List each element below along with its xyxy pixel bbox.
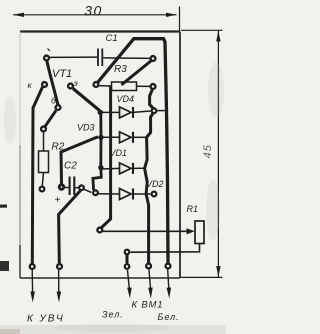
wire base pad to R2 top pad — [45, 111, 56, 127]
dimension line 30 (board width) — [13, 7, 180, 32]
lead-out arrow 5 — [167, 269, 172, 298]
node junction VD3 anode — [98, 135, 103, 140]
svg-text:30: 30 — [84, 3, 103, 19]
wire R1 bottom lead return — [131, 244, 200, 253]
wire R3 left lead — [99, 85, 112, 87]
lead-out arrow 1 — [30, 270, 35, 303]
capacitor C2 right plate — [73, 177, 75, 196]
diode VD4 — [101, 107, 166, 118]
node pad emitter row right — [92, 81, 99, 88]
node output pad 1 (K UVCh) — [29, 263, 36, 270]
wire trace R3 left down to R1 wiper pad — [101, 87, 111, 229]
svg-text:+: + — [55, 195, 61, 206]
wire R2 top lead — [43, 132, 45, 151]
transistor VT1 base pad — [54, 104, 61, 111]
node pad VD2 cathode — [151, 191, 158, 198]
wire diode cathode bus down to output pad 4 — [145, 114, 153, 263]
node output pad 5 (Bel) — [164, 262, 171, 269]
resistor R2 — [39, 151, 49, 173]
diode VD3 — [102, 132, 147, 143]
node output pad 4 (K BM1) — [145, 262, 152, 269]
transistor VT1 collector pad — [41, 81, 48, 88]
svg-text:VD4: VD4 — [117, 94, 135, 104]
wire C2 plus pad up and over to diode bus — [61, 137, 98, 184]
trimmer R1 wiper arrow — [187, 228, 195, 234]
scan artifacts — [0, 62, 226, 334]
node junction VD4 anode — [98, 110, 103, 115]
capacitor C1 right plate — [101, 49, 103, 67]
wire C1 right plate to pad — [103, 57, 150, 60]
wire emitter pad to diode bus junction — [73, 89, 100, 111]
wire C2 minus lead — [75, 187, 78, 189]
wire R2 bottom lead — [42, 173, 43, 186]
svg-text:VT1: VT1 — [52, 68, 72, 80]
wire pad R3-right down to VD4 cathode pad — [150, 90, 154, 109]
node pad R3 right — [149, 83, 156, 90]
svg-text:VD1: VD1 — [110, 148, 128, 158]
svg-text:С2: С2 — [64, 161, 77, 172]
node pad VD2 anode — [92, 189, 99, 196]
transistor VT1 top pad tick — [48, 49, 51, 52]
transistor VT1 top pad — [43, 54, 50, 61]
svg-text:С1: С1 — [106, 33, 118, 44]
node output pad 3 (Zel) — [124, 263, 131, 270]
wire diode anode bus vertical — [93, 112, 101, 190]
svg-text:э: э — [74, 78, 78, 88]
node pad C1 out — [149, 55, 156, 62]
node output pad 2 (K UVCh) — [56, 263, 63, 270]
node pad R1 wiper — [96, 226, 103, 233]
capacitor C1 left plate — [97, 49, 99, 67]
wire supply trace from emitter-row pad over top to right rail — [98, 39, 168, 263]
svg-text:R1: R1 — [187, 204, 199, 214]
wire link dual pad — [126, 252, 129, 267]
capacitor C2 minus pad — [78, 184, 85, 191]
wire VT1 top pad to C1 left plate — [50, 56, 98, 58]
wire C2 minus pad down to output pad 2 — [59, 191, 81, 264]
svg-text:Бел.: Бел. — [158, 312, 180, 322]
wire C2 plus lead — [65, 187, 69, 189]
diode VD1 — [101, 163, 145, 174]
lead-out arrow 4 — [148, 269, 153, 298]
wire R3 right lead — [137, 85, 151, 87]
wire C2 minus pad to VD2 anode pad — [84, 189, 91, 192]
svg-text:К ВМ1: К ВМ1 — [132, 300, 164, 311]
lead-out arrow 3 — [127, 270, 132, 299]
svg-text:К УВЧ: К УВЧ — [27, 314, 65, 325]
wire collector pad down left side to output pad — [32, 87, 42, 263]
dimension line 45 (board height) — [181, 30, 223, 277]
svg-text:R3: R3 — [114, 64, 127, 75]
node pad VD4 cathode — [151, 107, 158, 114]
svg-text:45: 45 — [202, 144, 214, 158]
wire pad C1-out diagonal to R3 — [122, 61, 152, 85]
capacitor C2 left plate — [69, 177, 71, 196]
diode VD2 — [98, 189, 151, 200]
board outline — [20, 32, 180, 279]
node pad R1 return — [124, 249, 131, 256]
trimmer R1 body — [195, 221, 204, 244]
capacitor C2 plus pad — [58, 183, 65, 190]
node junction VD1 anode — [98, 165, 103, 170]
lead-out arrow 2 — [57, 270, 62, 303]
wire R1 wiper lead — [103, 230, 188, 232]
resistor R3 — [112, 82, 137, 91]
svg-text:VD3: VD3 — [77, 123, 95, 133]
node pad below R2 — [39, 186, 46, 193]
wire VT1 top pad to base pad — [47, 59, 59, 105]
node pad above R2 — [40, 125, 47, 132]
svg-text:VD2: VD2 — [146, 179, 164, 189]
svg-text:Зел.: Зел. — [102, 310, 124, 320]
transistor VT1 emitter pad — [67, 82, 74, 89]
